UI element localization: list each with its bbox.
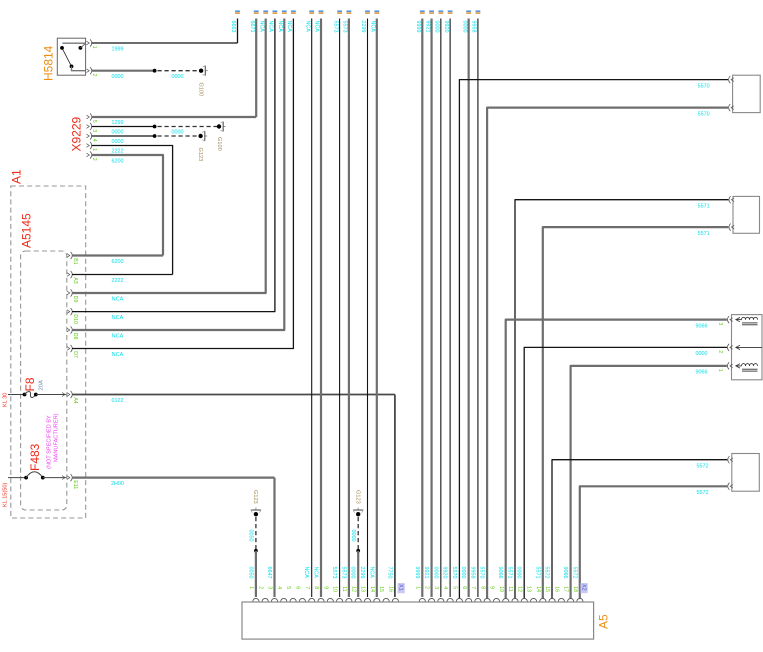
- fuse F483 supply wire: [8, 477, 26, 479]
- svg-text:0000: 0000: [172, 74, 184, 80]
- fuse F8 element: [23, 393, 27, 397]
- connector C2 pin b: [731, 225, 734, 229]
- svg-text:X9229: X9229: [70, 116, 84, 151]
- module A5145 dashed boundary: [21, 251, 67, 510]
- svg-text:A5145: A5145: [20, 213, 34, 248]
- svg-text:9921: 9921: [424, 21, 430, 33]
- A5 connector X2 socket 2: [428, 598, 434, 601]
- svg-text:9920: 9920: [442, 567, 448, 579]
- switch H5814 contact dot bottom: [70, 65, 74, 69]
- svg-text:6200: 6200: [112, 259, 124, 265]
- svg-text:10: 10: [332, 586, 338, 592]
- svg-text:A1: A1: [10, 169, 24, 184]
- connector X9229 pin 1: [87, 144, 90, 148]
- svg-text:8: 8: [479, 586, 485, 589]
- A5 connector X1 socket 14: [374, 598, 380, 601]
- connector mark top x=422.3: [420, 10, 425, 12]
- svg-text:1: 1: [414, 586, 420, 589]
- svg-text:A4: A4: [72, 397, 78, 403]
- svg-text:13: 13: [526, 586, 532, 592]
- svg-text:NCA: NCA: [277, 21, 283, 33]
- svg-text:13: 13: [360, 586, 366, 592]
- svg-text:3: 3: [433, 586, 439, 589]
- A5 connector X2 socket 15: [549, 598, 555, 601]
- svg-text:0000: 0000: [516, 567, 522, 579]
- svg-text:2299: 2299: [359, 567, 365, 579]
- svg-text:0122: 0122: [112, 398, 124, 404]
- connector mark top x=311.7: [309, 10, 314, 12]
- svg-text:6647: 6647: [266, 567, 272, 579]
- svg-text:5570: 5570: [698, 83, 710, 89]
- connector C4 pin b: [730, 485, 733, 489]
- svg-text:2222: 2222: [112, 278, 124, 284]
- svg-text:9958: 9958: [469, 567, 475, 579]
- connector mark top of wire 6663: [235, 10, 240, 12]
- svg-text:KL 30: KL 30: [3, 393, 9, 407]
- svg-text:KL 15(50): KL 15(50): [3, 483, 9, 507]
- svg-text:4: 4: [91, 139, 97, 142]
- svg-text:5572: 5572: [571, 567, 577, 579]
- A5 connector X1 socket 2: [262, 598, 268, 601]
- horn internal top line: [736, 319, 742, 321]
- svg-text:X2: X2: [580, 584, 586, 591]
- splice junction on G123 wire (2): [356, 549, 360, 553]
- wire NCA vertical x=376.8: [376, 19, 378, 598]
- wire 9958 vertical x=477.9: [477, 19, 479, 598]
- connector X9229 pin 2: [87, 153, 90, 157]
- wire 0000 H5814 dashed to ground: [158, 70, 202, 72]
- svg-text:16: 16: [553, 586, 559, 592]
- wire 0050 solid to A5 (1): [255, 551, 257, 597]
- A5 connector X2 socket 6: [466, 598, 472, 601]
- svg-text:5572: 5572: [544, 567, 550, 579]
- wire 5573 vertical x=339.6: [339, 19, 341, 598]
- svg-text:E11: E11: [72, 480, 78, 489]
- svg-text:D7: D7: [72, 351, 78, 358]
- svg-text:5570: 5570: [479, 567, 485, 579]
- svg-text:5572: 5572: [697, 463, 709, 469]
- svg-text:17: 17: [563, 586, 569, 592]
- module A5145 pin A3: [67, 273, 70, 277]
- connector mark top of wire 6671: [254, 10, 259, 12]
- svg-text:MANUFACTURER): MANUFACTURER): [54, 413, 60, 462]
- svg-text:15: 15: [378, 586, 384, 592]
- fuse F483 element: [24, 476, 28, 480]
- svg-text:5573: 5573: [331, 567, 337, 579]
- svg-text:2: 2: [91, 158, 97, 161]
- svg-text:5: 5: [285, 586, 291, 589]
- wire 7750 A4 vertical to A5: [394, 395, 396, 598]
- svg-text:5573: 5573: [340, 567, 346, 579]
- svg-text:0000: 0000: [696, 351, 708, 357]
- horn pin 3: [730, 318, 733, 322]
- svg-text:NCA: NCA: [303, 567, 309, 579]
- horn pin 1: [730, 364, 733, 368]
- svg-text:0000: 0000: [460, 567, 466, 579]
- wire NCA vertical x=321.0: [320, 19, 322, 598]
- wire 5571 conn2-b: [543, 227, 729, 598]
- svg-text:F8: F8: [23, 377, 37, 391]
- svg-text:11: 11: [507, 586, 513, 591]
- connector mark top x=376.8: [374, 10, 379, 12]
- connector X9229 pin 5: [87, 115, 90, 119]
- wire 5572 conn4-a: [552, 460, 727, 599]
- svg-text:0000: 0000: [350, 530, 356, 542]
- wire 6663 vertical to top: [237, 19, 239, 44]
- switch H5814 body: [57, 38, 85, 75]
- connector mark top x=477.9: [476, 10, 481, 12]
- svg-text:5570: 5570: [451, 567, 457, 579]
- svg-text:0000: 0000: [432, 567, 438, 579]
- A5 connector X1 socket 7: [309, 598, 315, 601]
- connector mark top x=339.6: [337, 10, 342, 12]
- svg-text:5571: 5571: [698, 203, 710, 209]
- A5 connector X2 socket 3: [438, 598, 444, 601]
- svg-text:2222: 2222: [112, 149, 124, 155]
- svg-text:9920: 9920: [443, 21, 449, 33]
- horn coil bottom: [742, 364, 746, 366]
- svg-text:5572: 5572: [697, 490, 709, 496]
- wire 0000 H5814 pin2 solid: [92, 70, 155, 72]
- svg-text:1: 1: [717, 369, 723, 372]
- module A5145 pin D9: [67, 291, 70, 295]
- svg-text:5573: 5573: [332, 21, 338, 33]
- svg-text:0000: 0000: [461, 21, 467, 33]
- connector X9229 pin 4: [87, 134, 90, 138]
- fuse F483 output wire: [43, 477, 67, 479]
- splice junction on X9229 pin4 wire: [153, 134, 157, 138]
- svg-text:0000: 0000: [112, 130, 124, 136]
- wire 1299 dashed to ground: [158, 126, 220, 128]
- fuse F8 output wire: [36, 394, 67, 396]
- A5 connector X2 socket 9: [493, 598, 499, 601]
- A5 connector X1 socket 9: [327, 598, 333, 601]
- svg-text:5570: 5570: [698, 111, 710, 117]
- connector mark top x=367.5: [365, 10, 370, 12]
- A5 connector X2 socket 18: [577, 598, 583, 601]
- wire 0050 dashed from G123 (1): [255, 517, 257, 551]
- svg-text:NCA: NCA: [112, 296, 124, 302]
- svg-text:10: 10: [498, 586, 504, 592]
- wire 9066 horn pin1: [571, 366, 727, 599]
- svg-text:NCA: NCA: [304, 21, 310, 33]
- module A5145 pin A4: [67, 393, 70, 397]
- A5 connector X1 socket 3: [271, 598, 277, 601]
- svg-text:NCA: NCA: [268, 21, 274, 33]
- svg-text:0050: 0050: [248, 530, 254, 542]
- svg-text:NCA: NCA: [313, 567, 319, 579]
- A5 connector X2 socket 8: [484, 598, 490, 601]
- connector mark top x=440.8: [438, 10, 443, 12]
- wire 5571 conn2-a: [515, 200, 728, 599]
- A5 connector X1 socket 1: [253, 598, 259, 601]
- wire 0000 dashed from G123 (2): [357, 517, 359, 551]
- wire 2222 A3 horizontal: [72, 274, 173, 276]
- svg-text:G100: G100: [216, 137, 222, 151]
- svg-text:2: 2: [257, 586, 263, 589]
- svg-text:9999: 9999: [415, 21, 421, 33]
- svg-text:12: 12: [350, 586, 356, 592]
- svg-text:(NOT SPECIFIED BY: (NOT SPECIFIED BY: [47, 415, 53, 469]
- wire 5573 vertical x=348.9: [348, 19, 350, 598]
- svg-text:A5: A5: [597, 614, 611, 629]
- horn internal bottom line: [736, 365, 742, 367]
- A5 connector X2 socket 10: [503, 598, 509, 601]
- horn component housing: [732, 315, 763, 380]
- svg-text:5: 5: [91, 120, 97, 123]
- connector C1 pin a: [731, 78, 734, 82]
- wire X9229 pin1 to A5145 A3: [92, 146, 173, 275]
- A5 connector X1 socket 16: [392, 598, 398, 601]
- svg-text:D9: D9: [72, 296, 78, 303]
- wire 2299 vertical x=367.5: [367, 19, 369, 598]
- connector C4 pin a: [730, 458, 733, 462]
- A5 connector X1 designator: [398, 583, 405, 593]
- svg-text:9921: 9921: [423, 567, 429, 579]
- wire X9229 pin2 to A5145 B1: [92, 155, 164, 256]
- module A5145 pin B1: [67, 254, 70, 258]
- fuse F483 output arrow: [62, 476, 65, 480]
- svg-text:D10: D10: [72, 314, 78, 324]
- connector C2 pin a: [731, 198, 734, 202]
- svg-text:12: 12: [516, 586, 522, 592]
- svg-text:20A: 20A: [39, 380, 45, 390]
- svg-text:5571: 5571: [698, 231, 710, 237]
- svg-text:0000: 0000: [112, 139, 124, 145]
- svg-text:G123: G123: [355, 490, 361, 504]
- horn arrow top: [736, 317, 740, 321]
- A5 connector X2 socket 5: [456, 598, 462, 601]
- svg-text:14: 14: [369, 586, 375, 592]
- svg-text:15: 15: [544, 586, 550, 592]
- wire 1299 X9229 pin3 solid: [92, 126, 155, 128]
- connector C1 pin b: [731, 106, 734, 110]
- A5 connector X1 socket 5: [290, 598, 296, 601]
- ground G100 symbol (H5814): [199, 69, 203, 73]
- svg-text:2: 2: [717, 350, 723, 353]
- connector mark top x=348.9: [347, 10, 352, 12]
- svg-text:5571: 5571: [507, 567, 513, 579]
- wire 9999 vertical x=422.3: [421, 19, 423, 598]
- svg-text:2: 2: [91, 74, 97, 77]
- svg-text:NCA: NCA: [112, 333, 124, 339]
- svg-text:14: 14: [535, 586, 541, 592]
- A5 connector X1 socket 10: [337, 598, 343, 601]
- wire 6200 B1 horizontal: [72, 254, 163, 256]
- svg-text:0000: 0000: [112, 74, 124, 80]
- A5 connector X2 socket 12: [521, 598, 527, 601]
- svg-text:B1: B1: [72, 258, 78, 264]
- wire 0000 X9229 pin4 solid: [92, 135, 155, 137]
- wire 0000 vertical x=468.6: [468, 19, 470, 598]
- connector mark top x=450.1: [448, 10, 453, 12]
- switch H5814 internal link right: [80, 44, 85, 48]
- module A5145 pin D7: [67, 347, 70, 351]
- svg-text:1999: 1999: [112, 47, 124, 53]
- svg-text:A3: A3: [72, 277, 78, 283]
- wire 2H00 E11 horizontal: [72, 477, 275, 479]
- connector mark top x=321.0: [319, 10, 324, 12]
- module A5145 pin D10: [67, 310, 70, 314]
- wire 0000 dashed to ground G123: [158, 135, 201, 137]
- switch H5814 internal contact feed: [62, 42, 85, 44]
- ground G100 symbol (X9229): [217, 124, 221, 128]
- svg-text:9066: 9066: [562, 567, 568, 579]
- fuse F8 supply wire: [8, 394, 25, 396]
- A5 connector X2 socket 14: [540, 598, 546, 601]
- svg-text:NCA: NCA: [370, 21, 376, 33]
- connector mark top x=468.6: [466, 10, 471, 12]
- svg-text:2299: 2299: [360, 21, 366, 33]
- A5 connector X1 socket 8: [318, 598, 324, 601]
- svg-text:H5814: H5814: [42, 45, 56, 81]
- A5 connector X2 socket 4: [447, 598, 453, 601]
- wire 5570 conn1-b: [487, 108, 728, 599]
- svg-text:6200: 6200: [112, 158, 124, 164]
- svg-text:5573: 5573: [342, 21, 348, 33]
- switch H5814 contact dot left: [60, 46, 64, 50]
- svg-text:18: 18: [572, 586, 578, 592]
- horn internal mid line: [736, 346, 762, 348]
- svg-text:NCA: NCA: [286, 21, 292, 33]
- control unit A1 dashed boundary: [11, 186, 86, 518]
- svg-text:G123: G123: [252, 490, 258, 504]
- A5 connector X2 socket 11: [512, 598, 518, 601]
- A5 connector X1 socket 15: [383, 598, 389, 601]
- wire NCA D10 path: [72, 19, 275, 312]
- svg-text:0050: 0050: [247, 567, 253, 579]
- svg-text:G123: G123: [197, 148, 203, 162]
- connector C4 housing: [732, 454, 760, 492]
- svg-text:2: 2: [424, 586, 430, 589]
- A5 connector X1 socket 13: [364, 598, 370, 601]
- module A5145 pin E11: [67, 476, 70, 480]
- wire 0000 solid to A5 (2): [357, 551, 359, 597]
- svg-text:0000: 0000: [350, 567, 356, 579]
- svg-text:3: 3: [267, 586, 273, 589]
- svg-text:16: 16: [388, 586, 394, 592]
- A5 connector X2 socket 17: [568, 598, 574, 601]
- svg-text:1: 1: [91, 148, 97, 151]
- svg-text:3: 3: [717, 322, 723, 325]
- svg-text:NCA: NCA: [112, 315, 124, 321]
- A5 connector X2 socket 13: [530, 598, 536, 601]
- svg-text:0000: 0000: [172, 130, 184, 136]
- switch H5814 pin 2: [87, 69, 90, 73]
- horn arrow bottom: [736, 364, 740, 368]
- A5 connector X1 socket 6: [299, 598, 305, 601]
- ground G123 symbol (bottom 2): [356, 512, 360, 516]
- svg-text:1299: 1299: [112, 120, 124, 126]
- wire NCA D7 path: [72, 19, 293, 349]
- connector mark top of D10 wire: [273, 10, 278, 12]
- splice junction on wire 1299: [153, 125, 157, 129]
- module A5145 pin D8: [67, 328, 70, 332]
- fuse F8 output arrow: [62, 393, 65, 397]
- connector C2 housing: [733, 196, 760, 233]
- wire NCA vertical x=311.7: [311, 19, 313, 598]
- connector C1 housing: [733, 75, 761, 112]
- svg-text:9066: 9066: [497, 567, 503, 579]
- horn coil top: [742, 317, 746, 319]
- svg-text:8: 8: [313, 586, 319, 589]
- svg-text:7750: 7750: [386, 567, 392, 579]
- svg-text:9: 9: [489, 586, 495, 589]
- svg-text:NCA: NCA: [314, 21, 320, 33]
- connector mark top x=431.6: [429, 10, 434, 12]
- A5 connector X1 socket 11: [346, 598, 352, 601]
- svg-text:D8: D8: [72, 333, 78, 340]
- wire 6671 vertical to top: [255, 19, 257, 118]
- connector mark top of D8 wire: [282, 10, 287, 12]
- ground G123 symbol (X9229): [198, 134, 202, 138]
- splice junction on G123 wire (1): [254, 549, 258, 553]
- svg-text:4: 4: [442, 586, 448, 589]
- wire NCA D9 path: [72, 19, 266, 294]
- svg-text:6: 6: [461, 586, 467, 589]
- wire 9921 vertical x=431.6: [430, 19, 432, 598]
- svg-text:6663: 6663: [230, 21, 236, 33]
- connector mark top of D9 wire: [263, 10, 268, 12]
- svg-text:6: 6: [295, 586, 301, 589]
- wire 5570 conn1-a: [459, 80, 728, 599]
- A5 connector X2 socket 16: [558, 598, 564, 601]
- A5 connector X2 socket 1: [419, 598, 425, 601]
- wire 1999 H5814 pin1 horizontal: [92, 42, 238, 44]
- svg-text:3: 3: [91, 129, 97, 132]
- splice junction on H5814 ground wire: [153, 69, 157, 73]
- wire NCA D8 path: [72, 19, 284, 331]
- horn arrow mid: [736, 345, 740, 349]
- wire 6647 E11 vertical to A5: [273, 478, 275, 597]
- svg-text:X1: X1: [398, 584, 404, 591]
- svg-text:9999: 9999: [414, 567, 420, 579]
- svg-text:NCA: NCA: [258, 21, 264, 33]
- svg-text:9958: 9958: [471, 21, 477, 33]
- A5 connector X2 designator: [581, 583, 588, 593]
- wire 0000 vertical x=440.8: [440, 19, 442, 598]
- svg-text:9066: 9066: [696, 323, 708, 329]
- switch H5814 internal bottom path: [72, 66, 86, 70]
- svg-text:4: 4: [276, 586, 282, 589]
- svg-text:5571: 5571: [534, 567, 540, 579]
- ground G123 symbol (bottom 1): [254, 512, 258, 516]
- svg-text:1: 1: [248, 586, 254, 589]
- svg-text:NCA: NCA: [112, 352, 124, 358]
- switch H5814 contact dot right: [79, 46, 83, 50]
- wire 5572 conn4-b: [580, 486, 727, 598]
- wire X9229 pin5 horizontal: [92, 116, 257, 118]
- svg-text:2H00: 2H00: [111, 481, 124, 487]
- connector X9229 pin 3: [87, 125, 90, 129]
- control unit A5 body: [242, 602, 594, 639]
- svg-text:7: 7: [470, 586, 476, 589]
- svg-text:9: 9: [322, 586, 328, 589]
- svg-text:7: 7: [304, 586, 310, 589]
- A5 connector X1 socket 4: [281, 598, 287, 601]
- A5 connector X1 socket 12: [355, 598, 361, 601]
- horn pin 2: [730, 346, 733, 350]
- switch H5814 internal lever: [62, 48, 72, 67]
- connector mark top of D7 wire: [291, 10, 296, 12]
- wire 9066 horn pin3: [506, 320, 727, 599]
- svg-text:0000: 0000: [434, 21, 440, 33]
- svg-text:G100: G100: [197, 83, 203, 97]
- svg-text:9066: 9066: [696, 370, 708, 376]
- switch H5814 pin 1: [87, 41, 90, 45]
- svg-text:5: 5: [451, 586, 457, 589]
- wire 0000 horn pin2: [524, 347, 727, 598]
